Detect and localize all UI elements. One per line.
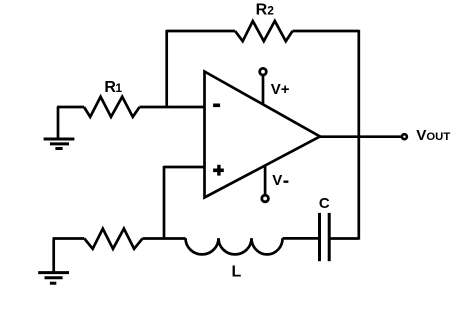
inductor L: [186, 238, 283, 254]
svg-text:V+: V+: [271, 81, 290, 98]
wire top left (feedback node to R2): [167, 30, 235, 33]
op-amp U1: [205, 72, 321, 198]
wire output: [320, 135, 401, 138]
resistor R3 (bottom, unlabelled): [84, 229, 142, 249]
capacitor C: [320, 213, 330, 261]
label R1: [104, 79, 122, 96]
label VOUT: [416, 127, 450, 144]
svg-text:1: 1: [115, 81, 122, 95]
label V-: [272, 172, 288, 189]
wire node B vertical (plus input down to bottom net): [163, 166, 166, 239]
op-amp inverting input marker (-): [213, 104, 220, 108]
wire non-inverting input: [164, 166, 205, 169]
svg-text:V: V: [272, 172, 282, 189]
ground 1: [44, 107, 75, 149]
wire left vertical (feedback down to inverting node): [165, 30, 168, 107]
op-amp non-inverting input marker (+): [213, 165, 224, 176]
svg-text:L: L: [232, 264, 242, 281]
wire ground 2 to bottom resistor: [53, 237, 85, 240]
wire resistor to node B: [143, 237, 186, 240]
svg-text:2: 2: [267, 3, 274, 17]
svg-text:C: C: [319, 195, 330, 212]
resistor R2: [235, 21, 292, 41]
svg-text:R: R: [256, 1, 268, 18]
terminal VOUT: [402, 134, 407, 139]
svg-text:OUT: OUT: [426, 131, 450, 143]
label R2: [256, 1, 275, 18]
wire R1 to inverting input (node A): [140, 106, 205, 109]
wire capacitor to right rail: [331, 237, 359, 240]
resistor R1: [84, 97, 140, 117]
wire top right (R2 to right rail): [293, 30, 359, 33]
wire ground 1 to R1: [57, 106, 84, 109]
ground 2: [38, 239, 69, 284]
wire inductor to capacitor: [283, 237, 319, 240]
V+ supply terminal: [260, 68, 267, 104]
wire right vertical rail: [357, 30, 360, 240]
V- supply terminal: [262, 165, 269, 201]
